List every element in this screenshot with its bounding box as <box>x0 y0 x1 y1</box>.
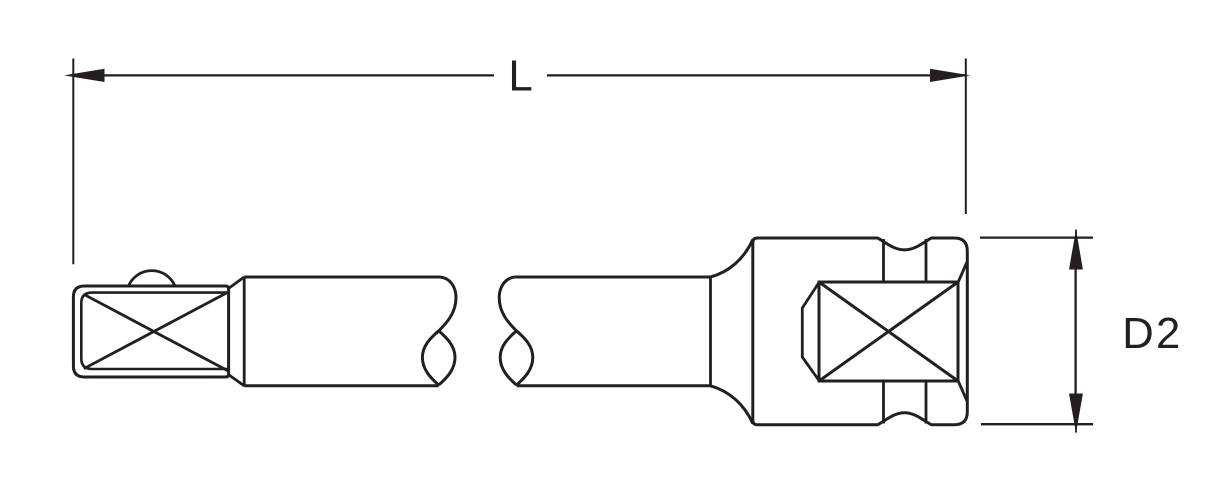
dimension line L left segment <box>70 74 494 76</box>
arrowhead top of dimension D2 <box>1069 229 1083 269</box>
transition slant top <box>229 277 244 288</box>
groove wall bottom right <box>925 381 928 424</box>
groove wall bottom left <box>882 381 885 424</box>
internal square opening <box>819 282 958 381</box>
square drive outer outline (left end) <box>73 286 228 377</box>
square opening left chamfer <box>802 283 819 381</box>
arrowhead right of dimension L <box>930 69 970 82</box>
extension line right of dimension L <box>965 59 967 215</box>
groove wall top left <box>882 239 885 282</box>
shaft piece 1 top edge <box>244 276 440 279</box>
shaft piece 1 bottom edge <box>244 384 439 387</box>
internal square X diagonal 1 <box>819 282 958 381</box>
square drive X diagonal 2 <box>84 292 229 369</box>
transition slant bottom <box>229 375 244 386</box>
flare curve bottom <box>711 386 753 424</box>
detent ball <box>128 271 175 287</box>
extension line left of dimension L <box>72 59 74 265</box>
internal square X diagonal 2 <box>819 282 958 381</box>
shaft/flare junction edge <box>709 277 712 386</box>
svg-text:D2: D2 <box>1122 310 1182 358</box>
flare curve top <box>711 240 753 278</box>
break S-curve piece 1 <box>436 277 456 334</box>
shaft piece 2 top edge <box>515 276 710 279</box>
svg-text:L: L <box>508 52 532 101</box>
shaft piece 2 bottom edge <box>517 384 711 387</box>
break S-curve piece 2 <box>499 277 519 334</box>
square drive X diagonal 1 <box>84 294 229 371</box>
socket body outline with retaining grooves <box>753 238 968 425</box>
square opening right chamfer bottom <box>958 381 967 402</box>
dimension line D2 <box>1074 270 1076 394</box>
groove wall top right <box>925 239 928 282</box>
extension line bottom of dimension D2 <box>981 423 1093 425</box>
break lens piece 1 <box>422 331 455 385</box>
square drive inner chamfer outline <box>81 293 228 369</box>
shaft end face edge <box>243 277 246 386</box>
break lens piece 2 <box>500 331 533 385</box>
extension line top of dimension D2 <box>980 236 1093 238</box>
arrowhead left of dimension L <box>64 69 105 82</box>
arrowhead bottom of dimension D2 <box>1069 394 1083 433</box>
dimension line L right segment <box>547 74 966 76</box>
square opening right chamfer top <box>958 262 967 283</box>
